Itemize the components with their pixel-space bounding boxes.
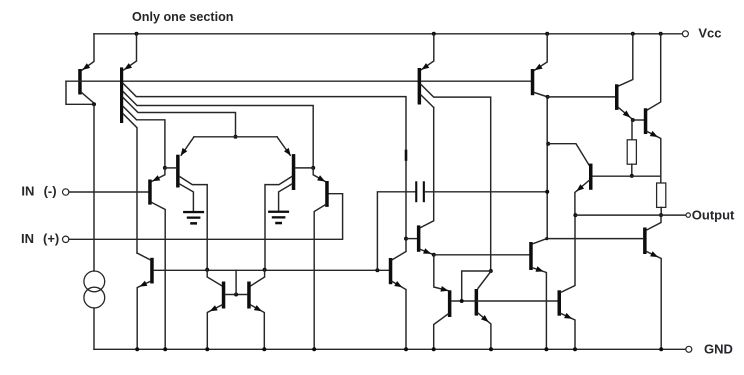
transistor Q1 emitter arrow [152,175,160,181]
transistor Q3 bar [292,154,296,190]
wire Q15 emitter [533,268,547,350]
node Q13 emitter junction [573,213,577,217]
wire Vcc to Q7 emitter [124,34,137,70]
node Vcc tap Q11 [631,32,635,36]
node GND rail junction [573,347,577,351]
node GND rail junction [312,347,316,351]
wire Q1 emitter from c4 [152,168,165,181]
transistor Q15 bar [529,242,533,270]
transistor Q13 bar [589,164,593,190]
svg-text:GND: GND [704,341,733,356]
node QB collector junction [489,269,493,273]
wire Q11 emitter [619,108,633,120]
node GND rail junction [262,347,266,351]
transistor QB bar [475,289,479,316]
node bridge junction [234,135,238,139]
Output terminal [686,213,690,217]
svg-text:Only one section: Only one section [132,10,233,24]
wire R1 top lead [631,120,633,140]
wire output line [575,214,688,216]
transistor QC bar [150,258,154,284]
svg-text:(+): (+) [43,231,59,246]
capacitor C1 [415,181,417,202]
transistor Q2 emitter arrow [181,148,188,156]
transistor QF emitter arrow [564,313,572,319]
transistor QD bar [222,282,226,309]
wire Q3 collector 1 [265,177,292,270]
transistor QA emitter arrow [440,286,448,292]
wire loop node down to current source [93,104,95,271]
transistor QD emitter arrow [210,305,218,311]
wire Vcc rail [94,33,682,35]
transistor QC emitter arrow [139,281,147,287]
wire IN- to Q1 base [69,191,148,193]
transistor QL bar [78,69,82,95]
wire Q7 collector c2 [123,92,313,168]
node Q10 collector junction [546,95,550,99]
node Q6 emitter junction [432,253,436,257]
node QD QE base junction [234,293,238,297]
wire Q10 collector to Q11 base [548,96,616,98]
wire Q1 collector [152,203,166,350]
wire Vcc to Q10 emitter [534,34,547,71]
wire Q13 base line [592,175,660,177]
wire Q4 collector [314,205,325,349]
transistor QA bar [448,290,452,317]
wire QB collector [478,272,491,289]
node Vcc tap Q10 [545,32,549,36]
node compensation tap [545,190,549,194]
wire Q7 collector c1 [123,84,406,251]
node GND rail junction [659,347,663,351]
node GND rail junction [404,347,408,351]
wire Q15 base line [434,254,530,256]
svg-text:IN: IN [21,183,34,198]
wire Q13 collector link [548,144,589,165]
svg-text:Vcc: Vcc [698,25,721,40]
wire Q7 collector c5 [123,114,137,253]
transistor Q7 bar [120,67,123,123]
transistor Q12 bar [644,108,648,134]
transistor Q8 emitter arrow [421,63,429,70]
transistor QE bar [247,282,251,309]
wire QD collector [207,270,222,286]
transistor Q11 emitter arrow [623,111,631,118]
node QE collector junction [263,268,267,272]
transistor QE emitter arrow [254,305,262,311]
transistor QL emitter arrow [82,63,90,70]
wire Q8 collector A [421,85,491,272]
wire Q14 emitter [647,252,662,350]
node output junction [659,213,663,217]
wire Q5 emitter [392,282,406,350]
wire R1 bottom lead [631,164,633,176]
node GND rail junction [432,347,436,351]
wire QF collector [561,215,575,292]
node Q11 emitter junction [631,118,635,122]
wire common base line [66,80,532,82]
GND terminal [686,346,692,352]
node GND rail junction [135,347,139,351]
node Vcc tap Q12 [659,32,663,36]
wire QC collector to c5 [137,253,150,260]
transistor Q4 emitter arrow [317,175,325,181]
wire cap right lead [425,191,547,193]
transistor Q10 emitter arrow [535,64,543,71]
transistor Q5 bar [389,258,393,284]
transistor Q14 emitter arrow [650,251,658,257]
wire QL base-collector loop [66,81,94,104]
transistor Q3 emitter arrow [284,148,291,156]
transistor Q8 bar [418,68,422,105]
wire protection base line [476,300,557,302]
wire Q3 base [295,167,313,169]
node Q3 base junction [311,166,315,170]
wire current source to GND rail [93,308,95,349]
transistor Q7 emitter arrow [124,63,132,70]
wire QB base stub [462,271,491,301]
wire Q6 base [406,238,417,240]
wire Q6 emitter [420,249,433,254]
node Q15 collector junction [545,237,548,240]
wire Q4 emitter from c2 [313,168,325,182]
transistor Q12 emitter arrow [650,131,658,137]
transistor Q10 bar [531,69,535,95]
wire QF emitter [561,314,575,350]
wire GND rail [94,348,686,350]
node cap node junction [375,268,379,272]
node GND rail junction [163,347,167,351]
node QD collector junction [205,268,209,272]
wire Q14 base line [547,238,643,240]
transistor Q2 bar [176,155,180,188]
wire bridge to Q2 emitter [181,137,194,156]
wire Vcc to Q8 emitter [421,34,434,70]
wire QC base line [154,269,389,271]
wire QC emitter [137,281,150,349]
transistor Q6 emitter arrow [423,248,431,254]
node R1 bottom junction [630,174,634,178]
wire Q2 base [165,167,176,169]
wire Q14 collector [647,215,661,230]
wire Q12 emitter [647,132,661,184]
wire Q7 c1 blob [405,151,408,160]
wire mirror base stub [235,270,237,294]
current source I1 [84,271,105,292]
wire QA emitter [434,255,448,291]
node GND rail junction [489,347,493,351]
node base-collector junction [92,102,96,106]
wire QD emitter [207,305,222,349]
wire IN+ to Q4 base [69,194,343,240]
transistor Q15 emitter arrow [536,266,544,272]
node GND rail junction [544,347,548,351]
transistor Q13 emitter arrow [576,184,584,191]
wire QD QE base link [225,294,247,296]
wire QL collector [82,93,94,105]
svg-text:(-): (-) [44,183,57,198]
node GND rail junction [205,347,209,351]
wire Q5 collector [392,252,406,260]
wire Q12 collector [647,34,661,110]
node Q6 base junction [404,237,408,241]
wire bridge to Q3 emitter [277,137,290,156]
node Q13 collector tap [546,142,550,146]
node QB base tie [460,299,464,303]
wire Q7 collector c3 [123,98,235,137]
wire QE emitter [251,305,264,349]
transistor Q1 bar [148,180,152,205]
ground symbol left [183,211,204,213]
wire Q15 collector [533,239,547,244]
wire Q12 base [633,119,644,121]
wire Vcc to QL emitter [82,34,94,70]
Vcc terminal [682,31,688,37]
wire Q2 collector 2 to ground [180,184,194,211]
node Q2 base junction [163,166,167,170]
transistor QB emitter arrow [481,315,489,322]
transistor Q5 emitter arrow [394,281,402,287]
wire R2 bottom lead [660,207,662,215]
wire Q3 collector 2 to ground [279,184,292,211]
resistor R1 [627,140,636,164]
wire Q11 collector [619,34,633,86]
transistor QF bar [558,290,562,315]
wire Q8 collector B [421,95,434,108]
transistor Q6 bar [417,225,421,251]
wire Q7 collector c4 [123,107,165,168]
resistor R2 [657,183,666,207]
wire QB emitter [478,313,491,349]
transistor Q4 bar [325,181,329,207]
wire Q2 collector 1 [180,177,208,270]
node Vcc tap Q7 [135,32,139,36]
wire Q10 collector [534,93,547,97]
wire QE collector [251,270,265,286]
transistor Q11 bar [615,84,619,110]
wire bridge [194,136,277,138]
wire Q13 emitter [575,181,589,216]
wire QA base link [451,300,474,302]
svg-text:Output: Output [692,208,735,223]
transistor Q14 bar [643,228,647,255]
node Vcc tap Q8 [432,32,436,36]
wire second stage node vertical [546,97,548,239]
wire QA collector [434,314,448,349]
ground symbol right [268,211,289,213]
wire cap left lead [377,192,415,270]
wire Q6 collector [420,108,433,228]
svg-text:IN: IN [21,231,34,246]
